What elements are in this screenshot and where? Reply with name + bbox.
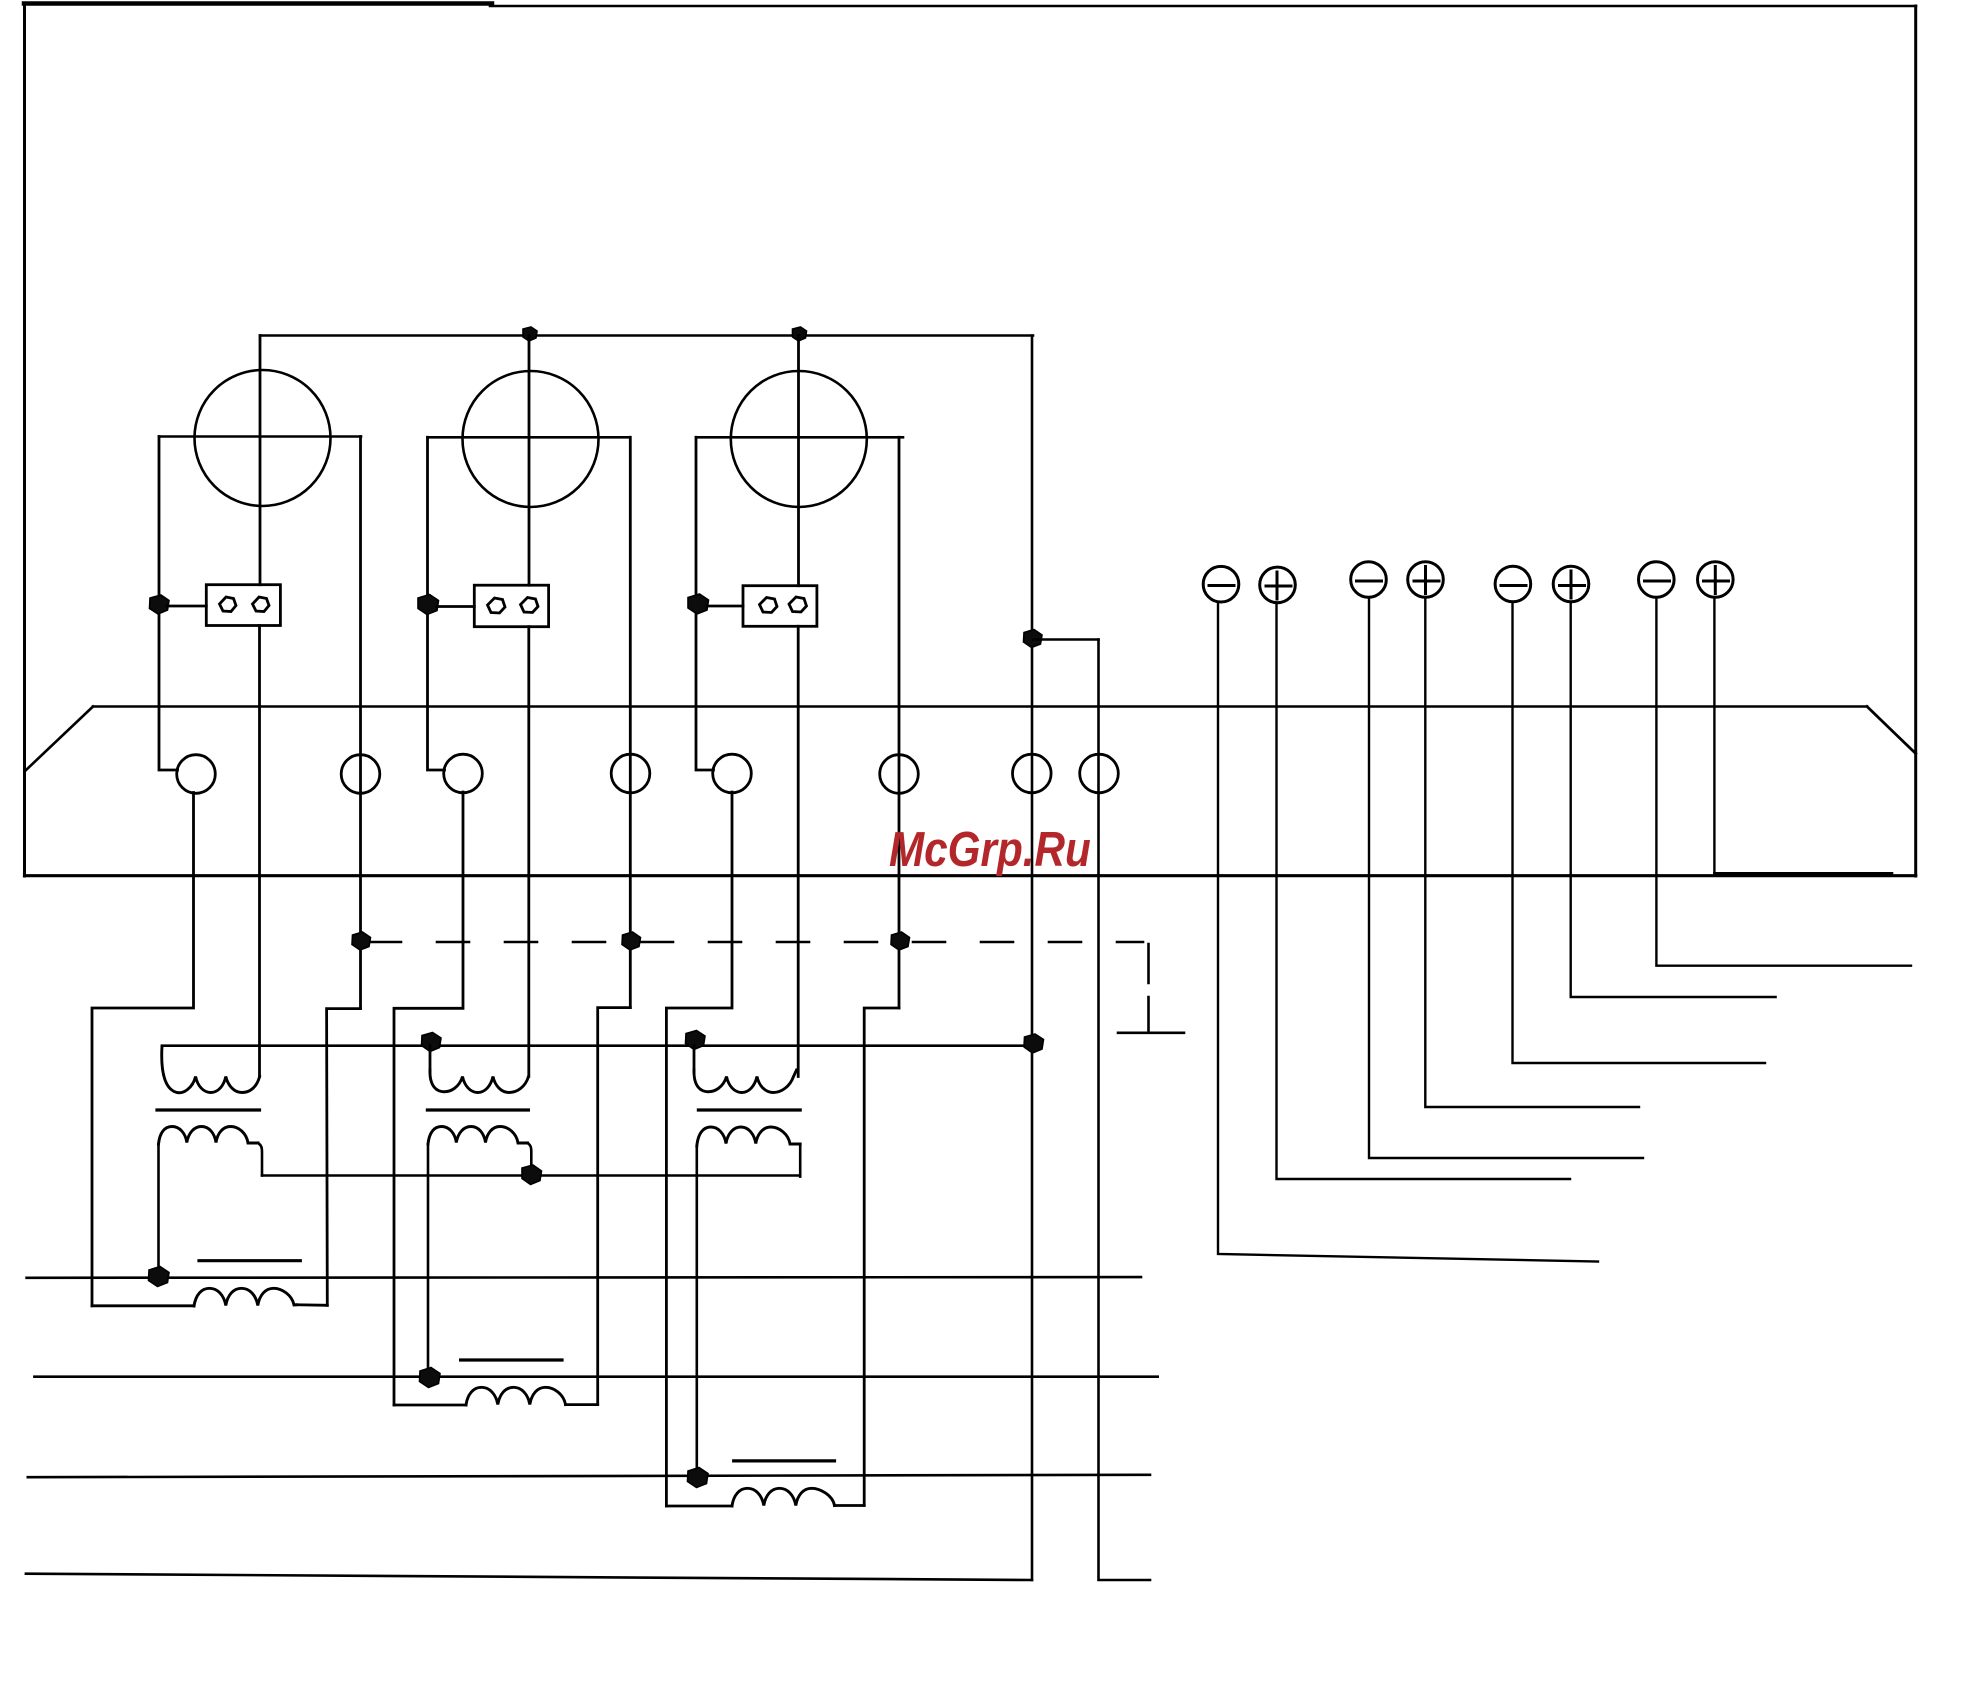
junction blob at branch to terminal 8 xyxy=(1024,630,1043,648)
phase 1 main vertical wire below box xyxy=(258,626,261,1077)
phase 2 main vertical wire xyxy=(528,336,531,586)
test box 2 xyxy=(474,585,548,627)
CT1 secondary winding xyxy=(159,1127,259,1145)
terminal strip left bevel xyxy=(26,707,94,771)
wire from polarity 2 xyxy=(1277,603,1571,1180)
polarity terminal circle 7 minus xyxy=(1639,562,1675,598)
load line 2 xyxy=(34,1375,1157,1378)
polarity terminal circle 6 plus xyxy=(1553,566,1589,602)
screw 1 of box 3 xyxy=(760,598,778,613)
meter current coil 2 left lead xyxy=(394,1404,466,1407)
CT2 secondary right lead xyxy=(528,1143,532,1176)
phase 1 bar wire xyxy=(159,435,361,438)
junction blob of feeder bus at CT2 xyxy=(422,1033,442,1052)
phase 3 left wire down to terminal 5 xyxy=(696,437,714,770)
border right edge xyxy=(1914,6,1917,876)
junction blob on bus at phase 3 xyxy=(793,327,807,341)
watermark text xyxy=(889,822,1091,878)
blob on dashed link at phase 3 xyxy=(891,932,910,950)
screw 2 of box 1 xyxy=(253,597,270,612)
blob left of test box 3 xyxy=(688,594,709,614)
terminal strip top edge xyxy=(93,705,1867,708)
minus sign 1 xyxy=(1209,584,1234,587)
meter current coil 2 winding xyxy=(466,1387,566,1405)
polarity terminal circle 3 minus xyxy=(1351,562,1387,598)
wire from polarity 7 xyxy=(1656,598,1911,966)
test box 1 xyxy=(206,585,280,626)
CT2 core xyxy=(427,1108,528,1111)
CT3 secondary winding xyxy=(697,1127,800,1146)
dashed link end tick xyxy=(1118,1032,1184,1035)
CT3 secondary left lead xyxy=(695,1146,698,1478)
test box 3 xyxy=(743,586,817,627)
blob left of test box 1 xyxy=(150,595,170,614)
phase 2 main vertical wire below box xyxy=(527,627,530,1077)
meter current coil 2 core xyxy=(461,1358,562,1361)
phase 2 right wire down through terminal 4 xyxy=(629,437,632,1007)
strip terminal circle 8 xyxy=(1080,754,1119,793)
step wire from terminal 5 xyxy=(666,792,732,1506)
meter current coil 3 right lead xyxy=(835,1504,865,1507)
phase 3 right wire down through terminal 6 xyxy=(898,437,901,1008)
phase 2 left wire down to terminal 3 xyxy=(428,437,445,770)
strip terminal circle 1 xyxy=(177,755,216,794)
CT2 primary left lead xyxy=(429,1046,432,1072)
meter element circle 3 xyxy=(731,371,867,507)
meter current coil 3 winding xyxy=(732,1488,835,1506)
terminal strip right bevel xyxy=(1867,707,1916,754)
load line 3 xyxy=(28,1475,1150,1477)
phase 1 left wire down to terminal 1 xyxy=(159,437,178,771)
junction blob of CT1 secondary on load line 1 xyxy=(149,1267,170,1287)
wire from polarity 6 xyxy=(1571,602,1776,997)
strip terminal circle 3 xyxy=(444,754,483,793)
border top edge thin right part xyxy=(490,5,1916,8)
plus sign 2 xyxy=(1266,572,1291,599)
step wire from terminal 1 xyxy=(92,793,194,1306)
blob left of test box 2 xyxy=(418,595,439,615)
strip terminal circle 2 xyxy=(341,755,380,794)
CT3 secondary right lead xyxy=(799,1144,802,1177)
wire from polarity 3 xyxy=(1369,598,1643,1159)
terminal strip bottom edge xyxy=(25,874,1916,877)
plus sign 6 xyxy=(1560,571,1585,598)
junction blob of feeder bus at terminal 7 wire xyxy=(1024,1034,1044,1053)
CT3 primary winding xyxy=(694,1070,797,1093)
phase 1 main vertical wire xyxy=(259,336,262,585)
phase 2 bar wire xyxy=(428,436,630,439)
polarity terminal circle 1 minus xyxy=(1203,566,1239,602)
meter current coil 3 left lead xyxy=(666,1505,732,1508)
meter current coil 1 right lead xyxy=(297,1303,328,1306)
step wire from terminal 4 xyxy=(598,1008,631,1405)
load line 4 xyxy=(26,1574,1032,1580)
tick from blob to box 1 xyxy=(167,605,206,608)
junction blob of CT3 secondary on load line 3 xyxy=(688,1468,709,1488)
CT3 primary left lead xyxy=(693,1046,696,1072)
polarity terminal circle 4 plus xyxy=(1408,562,1444,598)
blob on dashed link at phase 1 xyxy=(352,932,371,950)
strip terminal circle 5 xyxy=(713,754,752,793)
CT primary feeder bus xyxy=(162,1044,1032,1047)
step wire from terminal 3 xyxy=(394,792,463,1405)
polarity terminal circle 8 plus xyxy=(1698,562,1734,598)
dashed link wire horizontal xyxy=(361,941,1143,944)
load line 1 xyxy=(27,1276,1141,1279)
CT2 secondary winding xyxy=(428,1127,528,1145)
meter current coil 2 right lead xyxy=(566,1403,598,1406)
meter current coil 1 winding xyxy=(194,1288,297,1306)
phase 3 main vertical wire below box xyxy=(797,626,800,1076)
wire from polarity 8 xyxy=(1713,598,1715,874)
junction blob of CT2 secondary on load line 2 xyxy=(420,1368,441,1388)
junction blob on bus at phase 2 xyxy=(523,327,537,341)
CT2 secondary left lead xyxy=(427,1144,430,1379)
wire from bus corner down to terminal 7 xyxy=(1031,336,1034,1581)
step wire from terminal 2 xyxy=(327,1009,361,1306)
minus sign 7 xyxy=(1645,580,1670,583)
screw 2 of box 2 xyxy=(521,598,539,613)
junction blob of feeder bus at CT3 xyxy=(686,1031,706,1050)
tick from blob to box 3 xyxy=(707,605,743,608)
strip terminal circle 7 xyxy=(1013,754,1052,793)
screw 1 of box 2 xyxy=(488,598,506,613)
CT secondaries common wire xyxy=(262,1174,800,1177)
branch wire to terminal 8 xyxy=(1033,638,1099,641)
border top edge xyxy=(24,1,492,6)
phase 3 main vertical wire xyxy=(797,336,800,586)
CT3 core xyxy=(698,1108,800,1111)
CT2 primary winding xyxy=(430,1070,529,1093)
dashed link wire vertical xyxy=(1147,944,1150,1032)
step wire from terminal 6 xyxy=(864,1008,899,1506)
phase 1 right wire down through terminal 2 xyxy=(359,437,362,1009)
phase 3 bar wire xyxy=(696,436,903,439)
strip terminal circle 4 xyxy=(611,754,650,793)
CT1 secondary right lead xyxy=(258,1143,262,1176)
blob on dashed link at phase 2 xyxy=(622,932,641,950)
CT1 secondary left lead xyxy=(157,1144,160,1278)
polarity terminal circle 5 minus xyxy=(1495,566,1531,602)
polarity terminal circle 2 plus xyxy=(1260,567,1296,603)
CT1 core xyxy=(157,1108,260,1111)
wire from polarity 4 xyxy=(1425,598,1639,1108)
wire from polarity 5 xyxy=(1513,602,1766,1063)
wire overlap of polarity 8 along strip bottom xyxy=(1714,872,1892,875)
minus sign 3 xyxy=(1357,580,1382,583)
meter current coil 1 core xyxy=(199,1259,300,1262)
CT1 primary winding xyxy=(162,1046,260,1093)
plus sign 4 xyxy=(1414,567,1439,594)
screw 1 of box 1 xyxy=(220,597,237,612)
border left edge xyxy=(23,4,26,877)
junction blob on common wire at CT2 xyxy=(522,1165,542,1185)
meter element circle 1 xyxy=(195,370,331,506)
meter current coil 1 left lead xyxy=(92,1304,194,1307)
screw 2 of box 3 xyxy=(789,597,807,612)
vertical wire through terminal 8 xyxy=(1099,640,1151,1581)
minus sign 5 xyxy=(1501,584,1526,587)
plus sign 8 xyxy=(1704,567,1729,594)
meter element circle 2 xyxy=(463,371,599,507)
wire from polarity 1 xyxy=(1218,602,1598,1262)
top bus wire N xyxy=(260,334,1033,337)
strip terminal circle 6 xyxy=(880,755,919,794)
tick from blob to box 2 xyxy=(437,605,474,608)
meter current coil 3 core xyxy=(734,1459,835,1462)
